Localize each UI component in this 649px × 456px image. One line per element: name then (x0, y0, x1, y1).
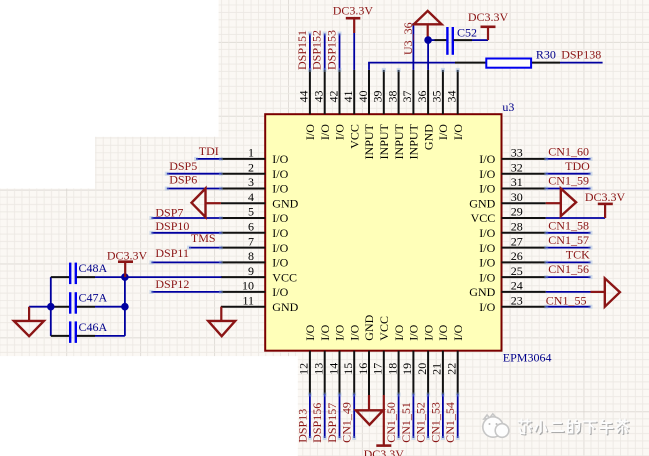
wire net TDO (544, 172, 592, 176)
svg-text:25: 25 (511, 264, 523, 278)
svg-text:INPUT: INPUT (392, 123, 406, 159)
svg-text:6: 6 (248, 220, 254, 234)
pin 31 (I/O) (479, 175, 546, 196)
svg-text:13: 13 (312, 363, 326, 375)
svg-text:C46A: C46A (79, 320, 108, 334)
pin 13 (I/O) (312, 324, 332, 395)
pin 32 (I/O) (479, 160, 546, 181)
svg-text:GND: GND (362, 314, 376, 340)
svg-text:TDI: TDI (199, 144, 219, 158)
net label DSP12 (155, 277, 189, 291)
svg-text:5: 5 (248, 205, 254, 219)
svg-text:DSP12: DSP12 (155, 277, 189, 291)
svg-text:GND: GND (421, 124, 435, 150)
wire net DSP10 (149, 231, 223, 235)
svg-text:DC3.3V: DC3.3V (364, 447, 405, 456)
svg-text:DC3.3V: DC3.3V (333, 4, 374, 18)
svg-text:U3_36: U3_36 (401, 22, 415, 55)
svg-text:I/O: I/O (479, 300, 495, 314)
svg-text:DSP6: DSP6 (169, 173, 197, 187)
svg-text:C47A: C47A (79, 291, 108, 305)
svg-text:7: 7 (248, 234, 254, 248)
pin 2 (I/O) (221, 160, 289, 181)
svg-text:30: 30 (511, 190, 523, 204)
svg-text:VCC: VCC (272, 270, 297, 284)
svg-text:I/O: I/O (272, 241, 288, 255)
net label DSP151 (295, 30, 309, 70)
pin 34 (I/O) (445, 70, 465, 140)
svg-text:I/O: I/O (451, 324, 465, 340)
svg-text:CN1_51: CN1_51 (399, 402, 413, 443)
svg-text:R30: R30 (536, 48, 556, 62)
svg-text:28: 28 (511, 220, 523, 234)
svg-text:I/O: I/O (407, 324, 421, 340)
net label CN1_55 (546, 293, 587, 307)
svg-text:CN1_58: CN1_58 (548, 218, 589, 232)
wire net CN1_56 (544, 275, 592, 279)
svg-text:21: 21 (430, 363, 444, 375)
svg-text:VCC: VCC (347, 124, 361, 149)
net label CN1_58 (548, 218, 589, 232)
power port DC3.3V (C52) (468, 10, 509, 40)
net label CN1_49 (340, 402, 354, 443)
pin 27 (I/O) (479, 234, 546, 255)
pin 4 (GND) (221, 190, 299, 211)
pin 15 (I/O) (341, 324, 361, 395)
wire net DSP11 (149, 260, 223, 264)
wire net CN1_49 (352, 393, 356, 441)
wire pin24 (546, 291, 591, 293)
svg-text:I/O: I/O (333, 324, 347, 340)
power port DC3.3V (pin 17) (364, 395, 405, 456)
net label DSP152 (310, 30, 324, 70)
pin 8 (I/O) (221, 249, 289, 270)
wire net TMS (187, 246, 223, 250)
junction node cap rail left (C47A) (47, 303, 55, 311)
svg-text:I/O: I/O (347, 324, 361, 340)
svg-text:41: 41 (341, 91, 355, 103)
net label DSP138 (561, 48, 601, 62)
power port DC3.3V (cap bank) (107, 249, 148, 278)
junction node cap rail right (C47A) (121, 303, 129, 311)
pin 16 (GND) (356, 314, 376, 395)
svg-text:CN1_55: CN1_55 (546, 293, 587, 307)
svg-text:TDO: TDO (565, 159, 590, 173)
svg-text:u3: u3 (502, 100, 514, 114)
svg-text:23: 23 (511, 293, 523, 307)
wire net DSP7 (149, 216, 223, 220)
pin 35 (I/O) (430, 70, 450, 140)
svg-text:26: 26 (511, 249, 523, 263)
svg-text:39: 39 (371, 91, 385, 103)
capacitor C52 (447, 26, 477, 55)
net label CN1_50 (384, 402, 398, 443)
pin 19 (I/O) (400, 324, 420, 395)
power arrow (pin 36 net) (414, 11, 442, 40)
svg-text:9: 9 (248, 264, 254, 278)
svg-text:I/O: I/O (272, 167, 288, 181)
svg-text:1: 1 (248, 146, 254, 160)
svg-text:I/O: I/O (303, 324, 317, 340)
net label TDI (199, 144, 219, 158)
net label CN1_60 (548, 145, 589, 159)
pin 20 (I/O) (415, 324, 435, 395)
svg-text:2: 2 (248, 160, 254, 174)
svg-text:DSP11: DSP11 (155, 246, 189, 260)
pin 17 (VCC) (371, 316, 391, 395)
watermark text (519, 420, 533, 435)
svg-text:17: 17 (371, 363, 385, 375)
pin 40 (INPUT) (356, 70, 376, 160)
pin 1 (I/O) (221, 146, 289, 167)
svg-text:I/O: I/O (272, 211, 288, 225)
pin 42 (I/O) (326, 70, 346, 140)
wire net DSP157 (338, 393, 342, 441)
svg-text:19: 19 (400, 363, 414, 375)
svg-text:12: 12 (297, 363, 311, 375)
pin 43 (I/O) (312, 70, 332, 140)
svg-text:DSP138: DSP138 (561, 48, 601, 62)
junction node pin36/C52 (424, 36, 432, 44)
wire net TDI (194, 157, 223, 161)
wire net CN1_60 (544, 157, 592, 161)
svg-text:I/O: I/O (272, 152, 288, 166)
svg-text:CN1_50: CN1_50 (384, 402, 398, 443)
svg-text:43: 43 (312, 91, 326, 103)
svg-text:35: 35 (430, 91, 444, 103)
net label TCK (566, 247, 590, 261)
svg-text:8: 8 (248, 249, 254, 263)
svg-text:4: 4 (248, 190, 254, 204)
pin 25 (I/O) (479, 264, 546, 285)
wire net DSP13 (308, 393, 312, 441)
svg-text:I/O: I/O (451, 124, 465, 140)
svg-text:GND: GND (469, 196, 495, 210)
pin 23 (I/O) (479, 293, 546, 314)
net label CN1_56 (548, 262, 589, 276)
pin 21 (I/O) (430, 324, 450, 395)
resistor R30 body (486, 48, 556, 68)
svg-text:CN1_52: CN1_52 (414, 402, 428, 443)
svg-text:20: 20 (415, 363, 429, 375)
svg-text:11: 11 (242, 293, 254, 307)
pin 7 (I/O) (221, 234, 289, 255)
svg-text:I/O: I/O (479, 270, 495, 284)
net label DSP7 (155, 205, 183, 219)
svg-text:34: 34 (445, 91, 459, 103)
svg-text:I/O: I/O (272, 182, 288, 196)
svg-text:37: 37 (400, 91, 414, 103)
svg-text:VCC: VCC (377, 316, 391, 341)
wire net DSP156 (323, 393, 327, 441)
svg-text:CN1_54: CN1_54 (443, 402, 457, 443)
svg-text:GND: GND (469, 285, 495, 299)
svg-text:18: 18 (385, 363, 399, 375)
net label CN1_54 (443, 402, 457, 443)
svg-text:14: 14 (326, 363, 340, 375)
svg-text:DSP157: DSP157 (325, 403, 339, 443)
pin 44 (I/O) (297, 70, 317, 140)
pin 37 (INPUT) (400, 70, 420, 160)
wire C52 right (454, 39, 488, 41)
svg-text:GND: GND (272, 196, 298, 210)
wire net CN1_50 (397, 393, 401, 441)
svg-text:29: 29 (511, 205, 523, 219)
net label DSP6 (169, 173, 197, 187)
net label TMS (191, 231, 216, 245)
port arrow (pin 4) (192, 189, 221, 218)
svg-text:INPUT: INPUT (377, 123, 391, 159)
svg-text:CN1_53: CN1_53 (428, 402, 442, 443)
wire net CN1_51 (411, 393, 415, 441)
net label DSP11 (155, 246, 189, 260)
pin 12 (I/O) (297, 324, 317, 395)
wire pin36 (427, 40, 429, 70)
wire net DSP5 (165, 172, 223, 176)
svg-text:TMS: TMS (191, 231, 216, 245)
pin 29 (VCC) (471, 205, 546, 226)
svg-text:INPUT: INPUT (362, 123, 376, 159)
svg-text:I/O: I/O (479, 226, 495, 240)
net label CN1_57 (548, 233, 589, 247)
pin 11 (GND) (221, 293, 299, 314)
wire pin41 VCC (353, 33, 355, 70)
svg-text:INPUT: INPUT (407, 123, 421, 159)
svg-text:I/O: I/O (479, 182, 495, 196)
svg-text:I/O: I/O (303, 124, 317, 140)
wire net CN1_59 (544, 187, 592, 191)
capacitor C46A (51, 320, 125, 343)
wire net CN1_55 (544, 305, 592, 309)
svg-text:I/O: I/O (333, 124, 347, 140)
svg-text:36: 36 (415, 91, 429, 103)
wire net DSP153 (338, 32, 342, 72)
svg-text:44: 44 (297, 91, 311, 103)
ground symbol (pin 11) (208, 307, 235, 337)
net label DSP13 (295, 409, 309, 443)
power port DC3.3V (pin 29) (585, 190, 626, 218)
svg-text:TCK: TCK (566, 247, 590, 261)
pin 5 (I/O) (221, 205, 289, 226)
net label U3_36 (401, 22, 415, 55)
capacitor C47A (51, 291, 125, 314)
svg-text:16: 16 (356, 363, 370, 375)
pin 9 (VCC) (221, 264, 297, 285)
pin 41 (VCC) (341, 70, 361, 149)
svg-text:I/O: I/O (479, 241, 495, 255)
ground symbol (cap bank) (14, 307, 44, 337)
svg-text:42: 42 (326, 91, 340, 103)
net label CN1_59 (548, 173, 589, 187)
svg-text:DC3.3V: DC3.3V (468, 10, 509, 24)
svg-text:EPM3064: EPM3064 (503, 350, 552, 364)
svg-text:GND: GND (272, 300, 298, 314)
svg-text:DC3.3V: DC3.3V (585, 190, 626, 204)
wire net DSP138 (560, 62, 603, 64)
wire net CN1_57 (544, 246, 592, 250)
svg-text:C48A: C48A (79, 261, 108, 275)
wire pin29 VCC (546, 217, 605, 219)
net label DSP157 (325, 403, 339, 443)
svg-text:I/O: I/O (436, 124, 450, 140)
svg-text:I/O: I/O (272, 226, 288, 240)
svg-text:I/O: I/O (421, 324, 435, 340)
svg-text:40: 40 (356, 91, 370, 103)
wire net TCK (544, 260, 592, 264)
cap bank left rail (50, 277, 52, 336)
wire net DSP152 (323, 32, 327, 72)
svg-text:I/O: I/O (436, 324, 450, 340)
wire net DSP12 (149, 290, 223, 294)
svg-text:I/O: I/O (272, 256, 288, 270)
svg-text:38: 38 (385, 91, 399, 103)
pin 14 (I/O) (326, 324, 346, 395)
svg-text:C52: C52 (457, 26, 477, 40)
svg-text:15: 15 (341, 363, 355, 375)
svg-text:DSP153: DSP153 (325, 30, 339, 70)
wire pin9 VCC to cap rail (125, 276, 222, 278)
svg-text:DSP152: DSP152 (310, 30, 324, 70)
pin 6 (I/O) (221, 220, 289, 241)
pin 22 (I/O) (445, 324, 465, 395)
ground symbol (pin 16) (356, 395, 383, 425)
svg-text:I/O: I/O (318, 124, 332, 140)
svg-text:CN1_56: CN1_56 (548, 262, 589, 276)
cap bank right rail (124, 277, 126, 336)
svg-text:I/O: I/O (392, 324, 406, 340)
net label DSP156 (310, 403, 324, 443)
svg-text:3: 3 (248, 175, 254, 189)
wire net CN1_53 (441, 393, 445, 441)
svg-text:DSP156: DSP156 (310, 403, 324, 443)
svg-text:DSP10: DSP10 (155, 219, 189, 233)
pin 26 (I/O) (479, 249, 546, 270)
wire net CN1_54 (456, 393, 460, 441)
net label DSP153 (325, 30, 339, 70)
net label CN1_53 (428, 402, 442, 443)
power port DC3.3V (pin 41) (333, 4, 374, 33)
open pin end marks (382, 68, 460, 72)
wire net U3_36 (412, 23, 414, 70)
svg-text:DSP13: DSP13 (295, 409, 309, 443)
pin 33 (I/O) (479, 146, 546, 167)
wire net DSP6 (165, 187, 223, 191)
wire net DSP151 (308, 32, 312, 72)
svg-text:22: 22 (445, 363, 459, 375)
resistor R30 leads (455, 62, 560, 64)
pin 38 (INPUT) (385, 70, 405, 160)
svg-text:I/O: I/O (479, 167, 495, 181)
net label TDO (565, 159, 590, 173)
svg-text:CN1_49: CN1_49 (340, 402, 354, 443)
svg-text:I/O: I/O (479, 256, 495, 270)
svg-text:DSP151: DSP151 (295, 30, 309, 70)
pin 39 (INPUT) (371, 70, 391, 160)
pin 18 (I/O) (385, 324, 405, 395)
svg-text:VCC: VCC (471, 211, 496, 225)
pin 36 (GND) (415, 70, 435, 150)
pin 28 (I/O) (479, 220, 546, 241)
pin 24 (GND) (469, 279, 546, 300)
wire to ground (cap bank) (29, 306, 51, 308)
svg-text:I/O: I/O (479, 152, 495, 166)
svg-text:31: 31 (511, 175, 523, 189)
svg-text:DC3.3V: DC3.3V (107, 249, 148, 263)
net label CN1_52 (414, 402, 428, 443)
net label CN1_51 (399, 402, 413, 443)
wire C52 left (428, 39, 447, 41)
svg-text:27: 27 (511, 234, 523, 248)
port arrow (pin 24) (591, 278, 620, 306)
svg-text:CN1_59: CN1_59 (548, 173, 589, 187)
svg-text:CN1_60: CN1_60 (548, 145, 589, 159)
svg-text:DSP7: DSP7 (155, 205, 183, 219)
svg-text:33: 33 (511, 146, 523, 160)
svg-text:32: 32 (511, 160, 523, 174)
net label DSP5 (169, 159, 197, 173)
capacitor C48A (51, 261, 125, 284)
svg-text:24: 24 (511, 279, 523, 293)
svg-text:I/O: I/O (318, 324, 332, 340)
pin 3 (I/O) (221, 175, 289, 196)
net label DSP10 (155, 219, 189, 233)
wire pin40 riser and R30 net (368, 63, 455, 70)
svg-text:DSP5: DSP5 (169, 159, 197, 173)
svg-text:I/O: I/O (272, 285, 288, 299)
port arrow (pin 30) (546, 189, 576, 217)
wire net CN1_52 (426, 393, 430, 441)
svg-text:10: 10 (242, 279, 254, 293)
watermark logo (483, 414, 509, 437)
IC U3 EPM3064 body (265, 114, 501, 351)
wire net CN1_58 (544, 231, 592, 235)
pin 10 (I/O) (221, 279, 289, 300)
svg-text:CN1_57: CN1_57 (548, 233, 589, 247)
pin 30 (GND) (469, 190, 546, 211)
junction node cap rail right (pin9) (121, 273, 129, 281)
